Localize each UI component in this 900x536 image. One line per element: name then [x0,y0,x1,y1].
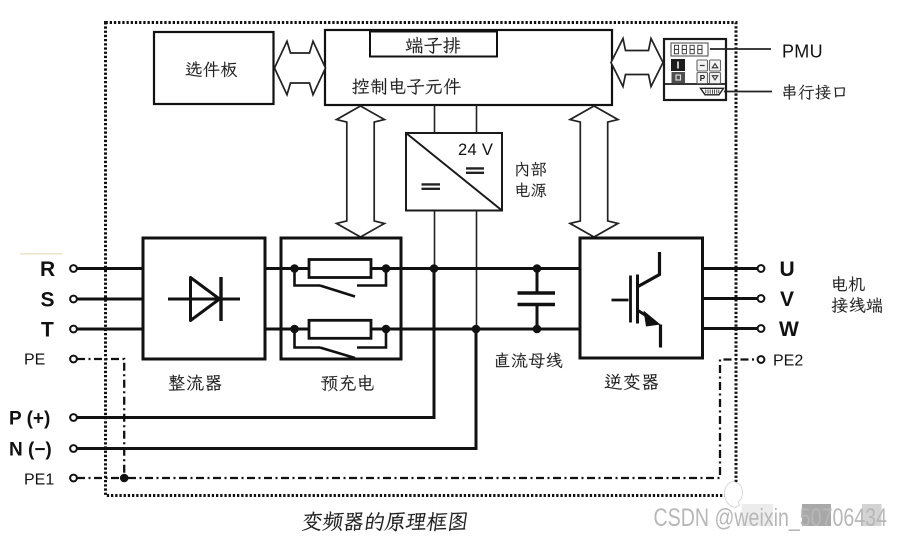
terminal S [70,296,77,303]
svg-text:W: W [779,318,799,341]
PMU jog button [697,60,708,71]
svg-text:PE: PE [24,352,45,369]
PMU operator panel [664,39,726,100]
label 逆变器 [605,373,659,390]
IGBT Q1 body bar [636,275,639,324]
node: 24V/N junction [472,325,481,334]
terminal V [758,295,765,302]
node: C1 bottom [533,325,542,334]
stray highlight marks [20,253,62,255]
label 控制电子元件 [352,78,461,95]
bypass contactor S1 (top) [295,269,387,286]
caption 变频器的原理框图 [302,511,468,531]
terminal U [758,265,765,272]
wire: control to 24V (right) [476,105,478,133]
wire: 24V to N bus [476,211,478,330]
terminal W [758,325,765,332]
label 接线端 [832,297,882,313]
node: PE junction [120,474,129,483]
label 预充电 [321,375,373,391]
wire W [703,327,758,330]
wire T [77,328,143,331]
leader line to PMU label [710,48,771,50]
wire: control to 24V (left) [434,105,436,133]
svg-text:V: V [780,288,794,311]
svg-text:PE1: PE1 [24,472,54,489]
DC-link capacitor C1 [536,269,539,292]
precharge resistor R2 (bottom) [309,320,371,338]
terminal T [70,326,77,333]
terminal PE1 [70,475,77,482]
terminal PE [70,356,77,363]
option board box U2 (选件板) [154,32,274,104]
mouse cursor artifact [725,482,743,508]
wire: rectifier to precharge (bottom) [265,328,281,331]
rectifier box (整流器) [143,238,265,359]
DC symbol (input) [422,184,441,188]
control arrow: control <-> inverter [570,106,618,237]
label 端子排 [406,37,461,54]
svg-text:24 V: 24 V [458,141,493,159]
PMU ON button [671,59,685,71]
control electronics box U1 (控制电子元件) [325,30,612,105]
IGBT Q1 collector [638,252,660,287]
svg-text:R: R [40,258,55,281]
PMU serial connector X300 [701,88,724,95]
bypass contactor S2 (bottom) [295,329,387,348]
node: R2 right [382,325,391,334]
svg-text:P: P [700,74,706,83]
label 内部 [516,162,546,177]
svg-text:PE2: PE2 [773,353,803,370]
bottom DC bus N wire [401,328,580,331]
wire: 24V to P bus [434,211,436,269]
24V DC/DC power supply U3 [406,133,502,211]
IGBT Q1 emitter with arrow [638,311,652,320]
terminal N(-) [70,445,77,452]
PMU P button [697,73,708,84]
wire P(+) to top DC bus [77,269,434,418]
label 直流母线 [496,352,562,368]
node: R1 right [382,264,391,273]
label 电机 [833,276,865,292]
terminal P(+) [70,414,77,421]
node: R2 left [290,325,299,334]
wire R [77,267,143,270]
terminal PE2 [758,356,765,363]
svg-text:S: S [41,289,55,312]
data bus arrow: option board <-> control [275,41,326,94]
wire N(-) to bottom DC bus [77,329,476,449]
DC symbol (output) [466,168,484,172]
wire U [703,267,758,270]
top DC bus P wire [401,267,580,270]
IGBT Q1 gate bar [629,276,632,323]
leader line to serial-interface label [724,91,772,93]
svg-text:CSDN @weixin_50706434: CSDN @weixin_50706434 [654,504,888,532]
precharge resistor R1 (top) [309,260,371,278]
diode D1 [168,298,240,301]
node: C1 top [533,264,542,273]
precharge box (预充电) [281,238,401,359]
PE ground wire (dash-dot) from PE terminal down to PE1 rail [77,359,124,478]
PMU raise button [710,60,721,71]
svg-text:U: U [780,258,795,281]
wire S [77,298,143,301]
wire: top precharge branch [281,267,401,270]
wire V [703,297,758,300]
label 串行接口 [783,84,845,100]
terminal strip box X1 (端子排) [370,32,497,57]
PE1 ground rail (dash-dot) across bottom, up to PE2 [77,360,758,479]
PMU lower button [710,73,721,84]
label 电源 [516,183,546,198]
converter enclosure (dotted border) [106,23,737,496]
svg-text:T: T [41,319,54,342]
wire: bottom precharge branch [281,328,401,331]
terminal R [70,265,77,272]
svg-text:PMU: PMU [782,42,823,62]
svg-text:P (+): P (+) [9,409,50,430]
wire: rectifier to precharge (top) [265,267,281,270]
IGBT Q1 gate lead [612,299,629,302]
node: R1 left [290,264,299,273]
node: 24V/P junction [430,264,439,273]
PMU seven-segment display [671,43,708,56]
data bus arrow: control <-> PMU [611,39,663,87]
svg-text:N (−): N (−) [9,440,52,461]
inverter box (逆变器) [580,238,703,358]
PMU OFF button [672,72,686,83]
label 选件板 [186,61,238,77]
control arrow: control <-> precharge [337,106,385,237]
label 整流器 [169,374,222,391]
